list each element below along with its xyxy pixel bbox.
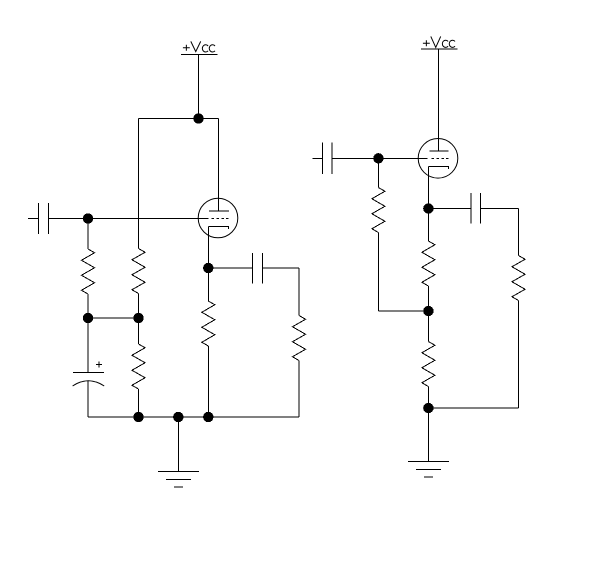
wire C2 to bus corner <box>87 381 89 418</box>
capacitor C4 input right <box>312 142 331 174</box>
resistor R8 <box>422 342 435 387</box>
wire node A to R1 <box>87 219 89 250</box>
resistor R5 <box>293 316 306 361</box>
wire R9 to corner bottom <box>518 301 520 409</box>
node bus left 3 <box>203 412 213 422</box>
triode V1 plate bar <box>209 210 229 212</box>
node A grid left <box>83 213 93 223</box>
wire cathode lead V1 <box>207 227 209 269</box>
wire node G to R7 <box>427 209 429 242</box>
wire Vcc stem left <box>198 55 200 119</box>
node F right <box>423 306 433 316</box>
wire ground bus left <box>88 416 299 418</box>
wire R7 to node F <box>427 286 429 311</box>
wire node E to R6 <box>377 158 379 187</box>
ground left <box>158 417 199 487</box>
node D cathode junction left <box>203 263 213 273</box>
resistor R4 <box>202 301 215 346</box>
wire R5 to bus <box>298 361 300 418</box>
wire node D to R4 <box>207 268 209 301</box>
resistor R9 <box>512 256 525 301</box>
wire node B to node C <box>88 317 139 319</box>
wire R1 to node B <box>87 294 89 318</box>
ground right <box>408 408 449 477</box>
resistor R1 <box>82 249 95 294</box>
wire C5 to corner <box>480 208 518 210</box>
wire grid lead V2 <box>332 157 428 159</box>
wire plate lead V1 <box>218 119 220 212</box>
capacitor C5 output right <box>471 193 481 224</box>
node H right <box>423 403 433 413</box>
wire corner down to R9 <box>518 209 520 256</box>
wire node F to R8 <box>427 311 429 342</box>
wire corner down to R5 <box>298 268 300 316</box>
capacitor C2 electrolytic plus sign <box>96 361 102 367</box>
wire R6 down to corner <box>377 233 379 312</box>
capacitor C2 electrolytic plates <box>73 373 105 387</box>
power +Vcc label (left) <box>183 41 215 52</box>
node bus left 2 <box>173 412 183 422</box>
resistor R2 <box>132 249 145 294</box>
wire R3 to bus <box>138 389 140 417</box>
node B left <box>83 313 93 323</box>
wire Vcc stem right / plate lead V2 <box>438 49 440 151</box>
resistor R7 <box>422 241 435 286</box>
power +Vcc bar (left) <box>181 54 218 56</box>
wire corner to node F <box>378 310 428 312</box>
node E grid right <box>373 153 383 163</box>
wire C3 to corner <box>263 267 300 269</box>
node bus left 1 <box>133 412 143 422</box>
wire node B to C2 <box>87 318 89 373</box>
wire R2 to node C <box>138 294 140 319</box>
wire node D to C3 <box>208 267 252 269</box>
triode V2 plate bar <box>429 150 448 152</box>
wire R4 to bus <box>207 346 209 417</box>
node N1 Vcc junction left <box>193 113 203 123</box>
wire cathode lead V2 <box>427 166 429 208</box>
triode V2 cathode <box>428 166 448 169</box>
capacitor C1 input left <box>28 203 49 234</box>
triode V1 grid dashes <box>212 218 229 220</box>
wire divider branch down <box>138 119 140 249</box>
wire node H to corner <box>428 407 518 409</box>
wire node C to R3 <box>138 318 140 344</box>
wire top horizontal left <box>139 118 219 120</box>
resistor R3 <box>132 344 145 389</box>
triode V1 cathode <box>208 227 228 230</box>
triode V2 grid dashes <box>432 157 449 159</box>
wire R8 to node H <box>427 387 429 409</box>
triode V2 envelope <box>418 139 458 179</box>
node C left <box>133 313 143 323</box>
power +Vcc bar (right) <box>421 48 458 50</box>
power +Vcc label (right) <box>423 36 455 47</box>
resistor R6 <box>372 188 385 233</box>
triode V1 envelope <box>198 198 238 238</box>
capacitor C3 output left <box>253 253 263 284</box>
wire node G to C5 <box>428 208 471 210</box>
node G cathode junction right <box>423 203 433 213</box>
wire grid lead V1 <box>49 218 209 220</box>
